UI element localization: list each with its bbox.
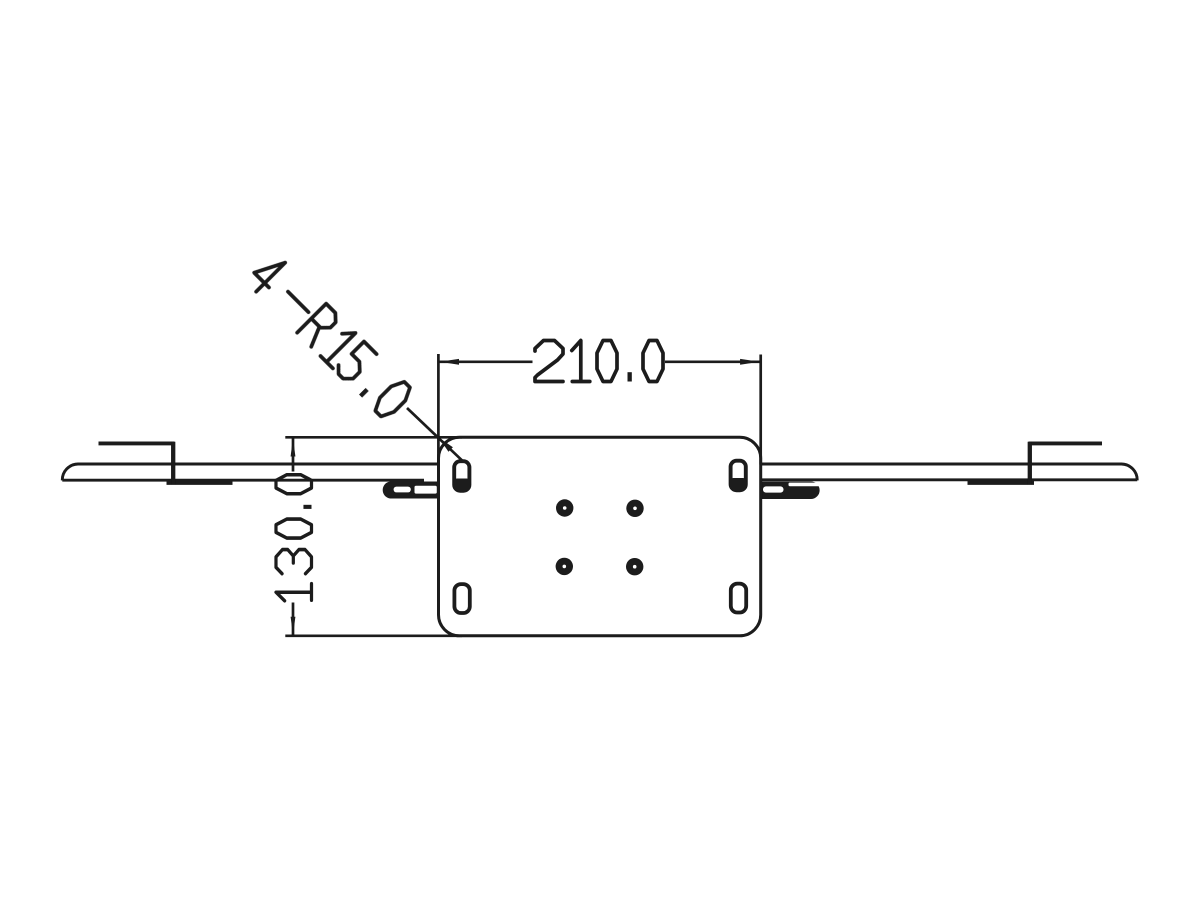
arrow 130.0 top: [291, 438, 296, 457]
slot bottom-right: [731, 584, 746, 613]
right step tab vertical foot: [1028, 442, 1032, 484]
left hook black body: [383, 482, 440, 499]
slot bottom-left: [454, 584, 469, 613]
left arm bottom edge: [62, 479, 424, 482]
right hook white slit: [763, 486, 784, 492]
right arm hidden thick bottom segment: [968, 481, 1035, 485]
plate outline (rounded rectangle): [439, 437, 761, 636]
dimension 210.0 right extension line: [759, 355, 762, 465]
dimension 130.0 bottom extension line: [285, 634, 462, 637]
left arm top edge with rounded left end: [62, 464, 438, 480]
right hook white sliver: [789, 483, 822, 487]
hole top-left: [556, 499, 573, 516]
hole bottom-right: [626, 558, 643, 575]
dimension text 210.0: [535, 341, 663, 382]
left arm hidden thick bottom segment: [167, 481, 233, 485]
leader arrowhead at plate corner: [439, 438, 453, 452]
leader line for 4-R15.0: [407, 408, 463, 461]
dimension 210.0 left extension line: [437, 354, 440, 465]
left hook white slit: [394, 487, 411, 493]
hole top-right: [626, 500, 643, 517]
arrow 210.0 right: [740, 359, 760, 365]
left step tab top line: [99, 441, 175, 445]
right step tab top line: [1029, 441, 1103, 445]
arrow 210.0 left: [440, 359, 460, 365]
slot top-right (with dark lower fill): [731, 461, 746, 491]
right arm top edge with rounded right end: [761, 464, 1138, 480]
dimension 130.0 top extension line: [285, 436, 462, 439]
dimension line 130.0 bottom segment: [292, 603, 295, 636]
hole bottom-left: [556, 558, 573, 575]
dimension text 130.0 (rotated): [276, 475, 312, 601]
dimension line 210.0 right segment: [665, 360, 760, 363]
left hook white notch near plate: [415, 486, 437, 494]
right arm bottom edge: [761, 478, 1137, 481]
dimension line 210.0 left segment: [440, 360, 533, 363]
arrow 130.0 bottom: [291, 617, 296, 636]
dimension line 130.0 top segment: [292, 438, 295, 472]
right hook black body: [759, 482, 820, 500]
leader text 4-R15.0 (rotated 45deg): [246, 252, 415, 421]
slot top-left (with dark lower fill): [454, 461, 469, 491]
left step tab vertical foot: [171, 442, 175, 484]
